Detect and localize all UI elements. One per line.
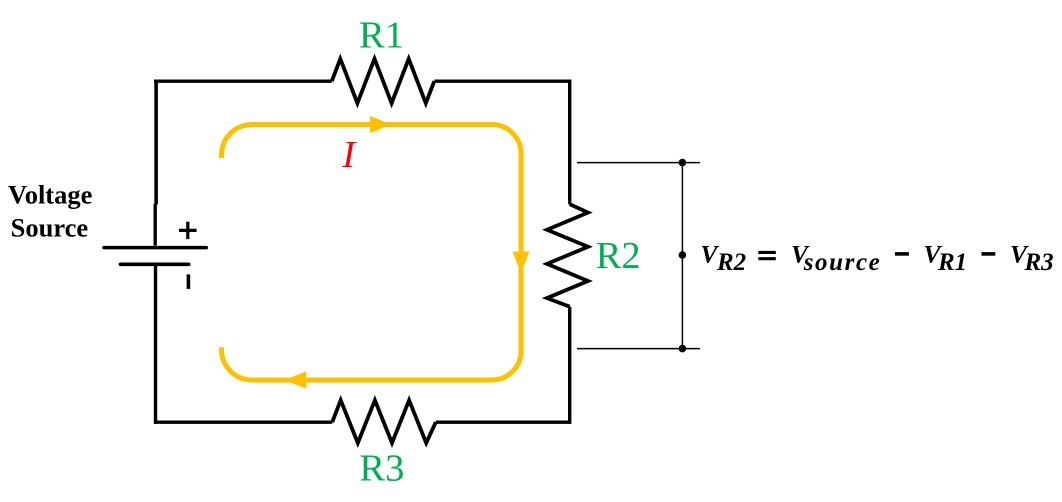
resistor R2 [547,204,588,307]
svg-text:Source: Source [11,213,89,243]
wire right vertical (bottom segment from R2 to bottom-right corner) [568,307,571,424]
battery plus sign [179,222,197,239]
wire top (right segment from R1 to top-right corner) [434,79,569,82]
resistor R3 [332,400,436,443]
minus sign 2 [982,252,996,256]
node dot middle [679,251,687,259]
svg-text:R1: R1 [359,14,404,56]
current arrowhead right (pointing down) [513,252,530,274]
measurement tick line top [577,162,700,164]
battery minus sign (vertical tick) [187,274,191,289]
current arrowhead bottom (pointing left) [285,371,307,388]
measurement vertical line [681,163,683,349]
current arrowhead top (pointing right) [370,116,392,133]
svg-text:R1: R1 [937,249,967,276]
wire bottom (right segment from corner to R3) [436,421,570,424]
wire left vertical (joint segment to battery + plate) [153,204,156,246]
node dot bottom [679,345,687,353]
formula V_R2 = V_source - V_R1 - V_R3 [701,240,1054,276]
wire left vertical (bottom half, from battery - plate to bottom-left corner) [154,264,157,424]
resistor R1 [332,59,435,103]
voltage source battery plate + (long) [104,246,206,250]
node dot top [679,159,687,167]
minus sign 1 [895,252,909,256]
equals sign [758,252,776,258]
wire right vertical (top segment to R2) [568,80,571,205]
voltage source battery plate - (short) [121,262,189,266]
svg-text:R3: R3 [1024,249,1054,276]
measurement tick line bottom [577,348,700,350]
svg-text:I: I [341,134,357,176]
svg-text:R2: R2 [596,235,641,277]
svg-text:Voltage: Voltage [8,179,93,209]
svg-text:R2: R2 [716,249,746,276]
wire left vertical (top half, from top-left corner to battery + plate) [154,81,158,204]
svg-text:R3: R3 [359,448,404,490]
current loop (yellow rounded path) [222,125,522,381]
wire top (left segment to R1) [154,79,332,82]
wire bottom (left segment from R3 to bottom-left corner) [154,421,332,424]
svg-text:source: source [803,249,882,276]
